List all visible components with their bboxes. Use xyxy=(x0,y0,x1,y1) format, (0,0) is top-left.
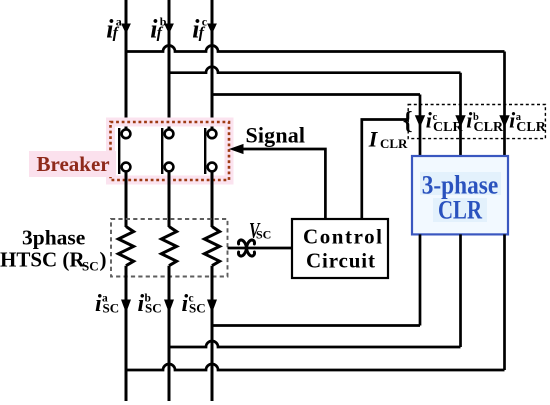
wire: phase C top tap to CLR (y=94.5) xyxy=(212,93,420,96)
svg-text:a: a xyxy=(102,293,108,305)
svg-text:c: c xyxy=(433,112,438,123)
svg-text:Circuit: Circuit xyxy=(306,248,375,272)
wire: V_SC sense lead from HTSC box to control circuit xyxy=(228,247,293,250)
label i_CLR^c xyxy=(426,108,464,136)
label Control Circuit xyxy=(303,224,382,272)
arrow for fault current i_f^b on phase B xyxy=(164,24,174,35)
wire: CLR phase C return horizontal to phase C (y=325.5) xyxy=(212,324,420,327)
svg-text:SC: SC xyxy=(256,228,271,242)
CLR current sense dashed box xyxy=(408,105,545,139)
label i_CLR^a xyxy=(509,108,547,136)
svg-text:3phase: 3phase xyxy=(22,226,85,250)
svg-text:i: i xyxy=(182,291,189,317)
svg-text:Signal: Signal xyxy=(246,122,306,147)
svg-text:i: i xyxy=(138,291,145,317)
label i_f^a xyxy=(106,14,122,43)
wire: phase B tap vertical drop at x=460.5 xyxy=(459,73,462,156)
phase A vertical wire (breaker to resistor) xyxy=(125,171,128,227)
label i_SC^a xyxy=(95,291,119,317)
breaker pole phase B: contacts and blade xyxy=(162,128,173,174)
phase B vertical feeder wire (top segment) xyxy=(168,0,171,130)
svg-text:HTSC (R: HTSC (R xyxy=(0,248,85,272)
resistor R_SC phase C xyxy=(204,227,219,266)
breaker pole phase A: contacts and blade xyxy=(119,128,130,174)
arrow for current i_SC^c on phase C xyxy=(207,300,217,314)
label 3-phase CLR xyxy=(422,171,499,225)
highlight behind CLR text xyxy=(433,198,487,222)
label i_SC^c xyxy=(182,291,206,317)
wire: phase C tap vertical drop at x=420 xyxy=(419,95,422,157)
label i_SC^b xyxy=(138,291,162,317)
svg-text:b: b xyxy=(160,14,167,28)
arrow for current i_CLR^b xyxy=(455,115,465,127)
wire: CLR phase B return horizontal to phase B (y=347) with hop over C xyxy=(169,341,461,347)
svg-text:a: a xyxy=(516,112,522,123)
wire: CLR phase A return vertical at x=504.5 xyxy=(503,234,506,370)
label 3phase HTSC (R_SC) xyxy=(0,226,107,274)
phase A vertical wire (resistor to bottom) xyxy=(125,266,128,401)
wire: phase A top tap to CLR (y=51.5) with hops over B and C xyxy=(126,46,505,52)
HTSC enclosure dashed box xyxy=(111,219,228,277)
label i_f^b xyxy=(150,14,167,43)
V_SC probe point symbol xyxy=(239,240,255,256)
phase C vertical feeder wire (top segment) xyxy=(211,0,214,130)
label i_f^c xyxy=(192,14,208,43)
wire: phase B top tap to CLR (y=72.7) with hop over C xyxy=(169,67,461,73)
phase B vertical wire (resistor to bottom) xyxy=(168,266,171,401)
phase C vertical wire (resistor to bottom) xyxy=(211,266,214,401)
label I_CLR xyxy=(368,126,408,151)
wire: CLR phase B return vertical at x=460.5 xyxy=(459,234,462,347)
highlight behind 3-phase text xyxy=(420,172,501,195)
arrow for fault current i_f^c on phase C xyxy=(207,24,217,35)
svg-text:i: i xyxy=(95,291,102,317)
arrow for current i_SC^b on phase B xyxy=(164,300,174,314)
phase A vertical feeder wire (top segment) xyxy=(125,0,128,130)
phase C vertical wire (breaker to resistor) xyxy=(211,171,214,227)
arrow for current i_SC^a on phase A xyxy=(121,300,131,314)
svg-text:Breaker: Breaker xyxy=(37,152,110,176)
Breaker label highlight xyxy=(29,151,116,177)
svg-text:Control: Control xyxy=(303,224,382,248)
svg-text:CLR: CLR xyxy=(433,120,463,135)
svg-text:CLR: CLR xyxy=(438,195,482,224)
breaker pole phase C: contacts and blade xyxy=(205,128,216,174)
label V_SC xyxy=(249,219,271,243)
wire: CLR phase C return vertical at x=420 xyxy=(419,234,422,325)
wire: signal output from control circuit xyxy=(242,149,325,219)
arrowhead of signal wire pointing at breaker xyxy=(229,144,244,154)
resistor R_SC phase A xyxy=(118,227,133,266)
breaker enclosure dashed box xyxy=(111,122,230,180)
wire: phase A tap vertical drop at x=504.5 xyxy=(503,52,506,157)
control circuit box U1 xyxy=(292,219,388,278)
arrow for current i_CLR^a xyxy=(499,115,509,127)
svg-text:a: a xyxy=(116,14,122,28)
svg-text:CLR: CLR xyxy=(380,136,408,151)
svg-text:b: b xyxy=(145,293,151,305)
svg-text:b: b xyxy=(473,112,479,123)
wire: I_CLR measurement input to control circuit xyxy=(362,120,407,220)
svg-text:c: c xyxy=(202,14,208,28)
svg-text:SC: SC xyxy=(82,259,99,274)
3-phase CLR box xyxy=(412,156,508,234)
wire: CLR phase A return horizontal to phase A (y=370) with hops over B and C xyxy=(126,364,505,370)
arrow for fault current i_f^a on phase A xyxy=(121,24,131,35)
resistor R_SC phase B xyxy=(161,227,176,266)
breaker highlight glow xyxy=(111,122,230,180)
label i_CLR^b xyxy=(466,108,504,136)
arrow for current i_CLR^c xyxy=(415,115,425,127)
phase B vertical wire (breaker to resistor) xyxy=(168,171,171,227)
svg-text:): ) xyxy=(100,248,107,272)
svg-text:I: I xyxy=(368,126,379,151)
svg-text:c: c xyxy=(189,293,194,305)
